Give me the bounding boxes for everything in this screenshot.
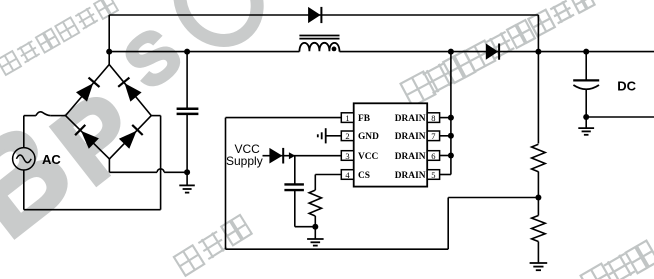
wire main rail right segment [340,51,654,53]
node vcc/cs ground junction [312,224,318,230]
pin 1 box [341,113,353,123]
pin 2 box [341,131,353,141]
node drain bus pin 6 [448,153,454,159]
capacitor C3 bulk [177,52,199,173]
wire FB pin1 [226,117,342,119]
pin 6 box [427,151,439,161]
wire FB rise vertical [447,198,449,250]
watermark text gongsi-B [174,215,252,276]
wire bridge bottom edge left [66,116,110,159]
resistor R3 cs [309,175,321,227]
wire GND pin2 [326,135,341,137]
diode D2 output rectifier [486,44,499,60]
label CS [358,171,370,181]
svg-text:CS: CS [358,171,370,181]
capacitor C1 vcc [284,156,304,227]
resistor R2 lower divider [532,198,546,263]
diode D1 freewheeling top [308,7,321,23]
node bridge output junction [106,49,112,55]
wire pin 7 to drain bus [440,135,451,137]
wire CS pin4 [315,174,341,176]
svg-text:1: 1 [345,113,349,123]
resistor R1 upper divider [532,52,546,198]
fuse bump [24,112,66,116]
svg-text:VCC: VCC [358,152,379,162]
node output return junction [583,114,589,120]
wire pin 6 to drain bus [440,155,451,157]
wire AC return vertical [160,116,162,210]
wire DC return to edge [586,116,654,118]
node feedback junction [535,195,541,201]
svg-text:DRAIN: DRAIN [395,114,426,124]
ground vcc/cs [307,227,324,246]
wire top rail drop at right [537,15,539,52]
pin 4 box [341,170,353,180]
node bridge ground junction [184,169,190,175]
wire VCC supply to pin3 [263,155,342,157]
watermark logo S [110,13,196,104]
svg-text:FB: FB [358,114,370,124]
wire bridge bottom drop [108,159,110,172]
wire AC bottom vertical [23,170,25,210]
ground output [578,118,594,135]
svg-text:AC: AC [42,152,61,167]
source AC [13,148,35,170]
wire FB bottom horizontal [226,248,449,250]
watermark text shanghai-C [401,0,595,106]
diode D7 bridge lower-right [119,125,143,149]
svg-text:GND: GND [358,132,379,142]
wire drain bus vertical [450,52,452,175]
diode D6 bridge lower-left [75,125,99,149]
svg-text:6: 6 [431,151,435,161]
node drain column junction [448,49,454,55]
svg-text:3: 3 [345,151,349,161]
svg-text:7: 7 [431,131,435,141]
label DRAIN pin 6 [395,152,426,162]
wire main rail left segment [109,51,299,53]
wire FB to divider [448,197,538,199]
node output cap junction [583,49,589,55]
svg-text:DRAIN: DRAIN [395,171,426,181]
wire pin 8 to drain bus [440,117,451,119]
wire top rail [109,14,538,16]
wire AC top vertical [23,116,25,148]
svg-text:5: 5 [431,170,435,180]
node drain bus pin 7 [448,133,454,139]
watermark logo O ring [164,0,273,56]
wire bridge ground line with hop [109,169,187,173]
svg-text:8: 8 [431,113,435,123]
label DRAIN pin 7 [395,132,426,142]
watermark logo P [31,69,161,208]
pin 8 box [427,113,439,123]
pin 5 box [427,170,439,180]
wire right corner jog [151,115,160,117]
watermark logo B [0,95,98,265]
wire FB left vertical [225,118,227,250]
label GND [358,132,379,142]
ground chip (rotated) [318,128,326,143]
diode D4 bridge upper-left [76,78,100,102]
arrow into vcc node [289,152,295,159]
label AC [42,152,61,167]
pin 3 box [341,151,353,161]
label FB [358,114,370,124]
watermark text youxian-D [581,241,654,279]
svg-text:DRAIN: DRAIN [395,132,426,142]
label DRAIN pin 8 [395,114,426,124]
wire bridge bottom edge right [109,116,151,159]
wire bridge top edge right [109,65,151,116]
node bulk cap junction [184,49,190,55]
pin 7 box [427,131,439,141]
svg-text:S: S [110,13,196,104]
ground divider [530,263,548,270]
svg-text:2: 2 [345,131,349,141]
capacitor C2 output [573,52,599,117]
inductor L1 [299,36,339,52]
diode D5 bridge upper-right [118,78,141,102]
node drain bus pin 8 [448,115,454,121]
label VCC [358,152,379,162]
wire pin 5 to drain bus [440,174,451,176]
svg-text:DC: DC [617,78,636,93]
label VCC Supply [226,142,263,168]
op-amp U1 body [354,103,428,186]
label DRAIN pin 5 [395,171,426,181]
wire bridge top edge left [66,65,110,116]
svg-text:Supply: Supply [226,154,263,168]
wire cap to cs ground [295,226,316,228]
wire left drop from top rail to bridge [108,15,110,65]
watermark text jingfeng-A [0,0,118,75]
wire AC bottom rail [24,209,161,211]
diode D3 vcc [269,148,283,164]
node top-rail/divider junction [535,49,541,55]
svg-text:DRAIN: DRAIN [395,152,426,162]
label DC [617,78,636,93]
ground bridge [179,172,195,192]
